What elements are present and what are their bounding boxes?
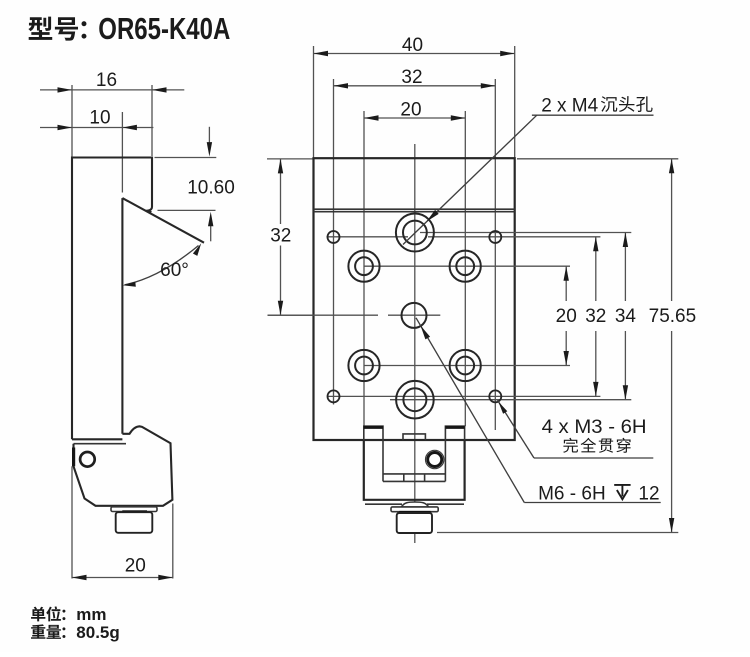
dimension 10.60 tail bottom bbox=[210, 226, 212, 241]
dimension 32 left arrow top bbox=[278, 159, 283, 174]
hole counterbore bottom-left outer bbox=[348, 350, 379, 381]
dimension 34 right arrow top bbox=[623, 233, 628, 248]
front clamp jaw bottom bbox=[383, 480, 445, 482]
leader M3 underline bbox=[534, 457, 653, 459]
front clamp flange bbox=[391, 507, 438, 512]
hole counterbore bottom-right inner bbox=[456, 357, 474, 375]
front clamp bottom second line b bbox=[427, 503, 464, 505]
dimension 20 arrow right bbox=[158, 575, 173, 580]
ext line 75.65 bottom bbox=[437, 532, 678, 534]
hole counterbore top-right outer bbox=[450, 251, 481, 282]
dimension 32 left line upper bbox=[280, 159, 282, 224]
svg-text:12: 12 bbox=[638, 483, 659, 504]
dimension 20 top line bbox=[364, 117, 465, 119]
dimension 75.65 line b bbox=[671, 331, 673, 533]
hole counterbore bottom-left inner bbox=[355, 357, 373, 375]
front clamp top tab bbox=[403, 434, 425, 440]
dimension 75.65 line a bbox=[671, 159, 673, 301]
dimension 32 left ext top bbox=[267, 158, 314, 160]
dimension 16 extension line right bbox=[151, 85, 153, 156]
front ext line plate left bbox=[313, 46, 315, 158]
row line counterbore top bbox=[364, 265, 571, 267]
dimension 16 extension line left bbox=[71, 85, 73, 158]
hole counterbore top-right inner bbox=[456, 257, 474, 275]
row line M3 top b bbox=[428, 236, 600, 238]
dimension 10 line bbox=[40, 127, 153, 129]
dimension 32 left ext bottom bbox=[268, 314, 314, 316]
hole M6 center bbox=[402, 303, 427, 328]
title cjk bbox=[28, 17, 52, 40]
dimension 10 extension line bbox=[121, 112, 123, 193]
side clamp screw hole bbox=[80, 452, 95, 467]
hole counterbore top-left inner bbox=[355, 257, 373, 275]
row line M3 bottom bbox=[327, 395, 600, 397]
svg-text:32: 32 bbox=[270, 225, 291, 246]
plate internal line upper bbox=[314, 208, 515, 210]
front clamp jaw right wall bbox=[444, 440, 446, 481]
side view bar right edge bbox=[121, 198, 123, 434]
ext line 75.65 top bbox=[517, 158, 678, 160]
front ext line hole col 465 bbox=[464, 111, 466, 426]
dimension 20 top arrow left bbox=[364, 115, 379, 120]
dimension 32 left line lower bbox=[280, 246, 282, 316]
dimension 20 right arrow bottom bbox=[564, 351, 569, 366]
dimension 75.65 arrow top bbox=[669, 159, 674, 174]
side clamp flange bbox=[111, 507, 157, 512]
dimension 10.60 tail top bbox=[208, 127, 210, 146]
svg-text:M6 - 6H: M6 - 6H bbox=[538, 483, 606, 504]
dimension 32 top arrow left bbox=[334, 83, 349, 88]
dimension 10.60 arrow top bbox=[207, 142, 212, 157]
leader M4 arrow bbox=[426, 210, 438, 222]
side clamp left face thick bbox=[72, 448, 75, 467]
dimension 32 left arrow bottom bbox=[278, 301, 283, 316]
leader M6 underline bbox=[524, 502, 660, 504]
svg-text:mm: mm bbox=[76, 605, 106, 624]
label 4xM3 cjk bbox=[563, 438, 578, 453]
dimension 34 right arrow bottom bbox=[623, 385, 628, 400]
front clamp bottom second line a bbox=[365, 503, 402, 505]
svg-text:16: 16 bbox=[96, 70, 117, 91]
hole M3 top-left bbox=[328, 231, 340, 243]
dimension 40 arrow left bbox=[314, 51, 329, 56]
dimension 20 extension line left bbox=[71, 466, 73, 578]
front clamp left ear top thick bbox=[364, 426, 383, 429]
row line M4 bottom bbox=[390, 399, 631, 401]
svg-text:75.65: 75.65 bbox=[649, 306, 697, 327]
dimension 32 right line b bbox=[595, 331, 597, 396]
dimension 10.60 arrow bottom bbox=[208, 212, 213, 227]
dimension 16 arrow right bbox=[152, 87, 167, 92]
hole M4 top inner bbox=[403, 221, 427, 245]
dimension 20 extension line right bbox=[172, 504, 174, 579]
front clamp jaw divider left bbox=[403, 474, 405, 482]
hole M3 bottom-right bbox=[489, 390, 501, 402]
label M6 depth symbol bbox=[614, 485, 630, 499]
angle 60 arrow at blade bbox=[193, 243, 201, 256]
svg-text:10: 10 bbox=[89, 108, 110, 129]
front clamp right ear top thick bbox=[445, 426, 464, 429]
angle 60 arc bbox=[125, 246, 199, 285]
side clamp top edge bbox=[74, 443, 127, 445]
front vertical centerline bbox=[414, 144, 416, 543]
leader M3 arrow bbox=[498, 402, 507, 414]
footer unit cjk bbox=[31, 607, 45, 622]
front clamp knob bbox=[397, 513, 432, 533]
hole M4 bottom inner bbox=[403, 388, 426, 411]
dimension 34 right line b bbox=[624, 331, 626, 400]
dimension 20 right arrow top bbox=[564, 266, 569, 281]
dimension 20 right line b bbox=[565, 331, 567, 366]
hole M3 top-right bbox=[489, 231, 501, 243]
leader M6 diagonal bbox=[416, 318, 524, 503]
svg-text:32: 32 bbox=[585, 306, 606, 327]
hole M4 top counterbore bbox=[396, 214, 434, 252]
dimension 32 right line a bbox=[595, 237, 597, 301]
front ext line hole col 333 bbox=[333, 79, 335, 405]
dimension 40 arrow right bbox=[500, 51, 515, 56]
side view bar outline bbox=[72, 158, 152, 440]
dimension 10 arrow left bbox=[58, 125, 73, 130]
plate outline bbox=[314, 158, 515, 440]
dimension 10.60 extension line top bbox=[155, 157, 217, 159]
front clamp body bbox=[364, 440, 465, 500]
front ext line plate right bbox=[514, 46, 516, 158]
svg-text:20: 20 bbox=[400, 99, 421, 120]
svg-text:2 x M4: 2 x M4 bbox=[541, 96, 598, 117]
dimension 40 line bbox=[314, 53, 515, 55]
leader M4 underline bbox=[532, 114, 654, 116]
hole M4 bottom counterbore bbox=[396, 381, 434, 419]
row centerline M6 b bbox=[388, 314, 440, 316]
hole counterbore bottom-right outer bbox=[450, 350, 481, 381]
row centerline M6 a bbox=[268, 314, 379, 316]
svg-text:80.5g: 80.5g bbox=[76, 623, 119, 642]
footer weight cjk bbox=[31, 624, 45, 638]
svg-text:4 x M3 - 6H: 4 x M3 - 6H bbox=[542, 417, 647, 438]
front clamp right ear bbox=[445, 426, 464, 440]
front clamp screw bold ring bbox=[428, 453, 442, 467]
svg-text:20: 20 bbox=[125, 555, 146, 576]
svg-text:20: 20 bbox=[556, 306, 577, 327]
side clamp bar bottom edge bbox=[72, 438, 122, 440]
dimension 20 top arrow right bbox=[451, 115, 466, 120]
plate internal line lower bbox=[314, 211, 515, 213]
row line counterbore bottom bbox=[364, 365, 571, 367]
row line M4 top bbox=[420, 232, 631, 234]
svg-text:34: 34 bbox=[615, 306, 637, 327]
dimension 32 right arrow top bbox=[593, 237, 598, 252]
svg-text:32: 32 bbox=[401, 67, 422, 88]
dimension 16 arrow left bbox=[58, 87, 73, 92]
hole counterbore top-left outer bbox=[348, 251, 379, 282]
dimension 10 arrow right bbox=[122, 125, 136, 130]
side clamp outline bbox=[74, 426, 173, 506]
side clamp knob bbox=[116, 512, 153, 533]
front clamp screw outer ring bbox=[426, 450, 444, 468]
dimension 20 line bbox=[72, 577, 173, 579]
dimension 32 top arrow right bbox=[481, 83, 496, 88]
hole M3 bottom-left bbox=[328, 390, 340, 402]
front clamp dark band bbox=[399, 511, 430, 515]
front ext line hole col 495 bbox=[494, 79, 496, 430]
svg-text:60°: 60° bbox=[160, 260, 189, 281]
front clamp jaw shelf bbox=[383, 473, 445, 475]
side clamp dark band bbox=[122, 510, 147, 513]
dimension 16 line bbox=[40, 89, 184, 91]
dimension 20 arrow left bbox=[72, 575, 87, 580]
dimension 32 right arrow bottom bbox=[593, 382, 598, 397]
dimension 75.65 arrow bottom bbox=[669, 518, 674, 533]
leader M4 line bbox=[403, 115, 537, 244]
angle 60 arrow on edge bbox=[123, 282, 136, 287]
front clamp dome bbox=[401, 502, 428, 507]
dimension 10.60 extension line bottom bbox=[158, 209, 216, 211]
label 2xM4 cjk bbox=[601, 96, 617, 112]
front clamp left ear bbox=[364, 426, 383, 440]
dimension 34 right line a bbox=[624, 233, 626, 302]
svg-text:10.60: 10.60 bbox=[187, 177, 235, 198]
dimension 20 right line a bbox=[565, 266, 567, 301]
leader M6 arrow bbox=[421, 326, 431, 340]
svg-text:40: 40 bbox=[402, 35, 423, 56]
row line M3 top a bbox=[327, 236, 409, 238]
front ext line hole col 364 bbox=[363, 111, 365, 426]
leader M3 diagonal bbox=[498, 400, 535, 458]
side view blade chamfer line bbox=[122, 198, 204, 243]
svg-text:OR65-K40A: OR65-K40A bbox=[98, 11, 230, 46]
front clamp jaw divider right bbox=[424, 474, 426, 482]
front clamp jaw left wall bbox=[382, 440, 384, 481]
dimension 32 top line bbox=[334, 85, 496, 87]
